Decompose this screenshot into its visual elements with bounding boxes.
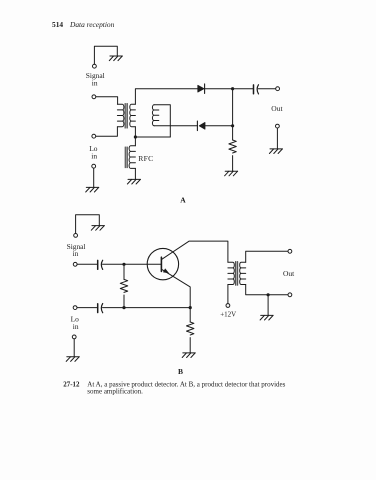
transistor Q1 body [147,248,178,279]
wire: lower stub to ground [93,168,95,187]
wire: secondary bottom to junction [134,127,136,137]
label: Signal in (A) [86,71,105,87]
resistor R3 (emitter) [187,308,194,353]
transformer T1 core [125,103,127,128]
diode D1 (series detector diode) [198,84,205,94]
node: Lo / R2 junction [122,306,125,309]
ground: RFC ground [127,179,140,184]
node: B lower stub terminal [72,335,76,339]
capacitor C1 (output coupling) [254,85,259,94]
svg-text:Out: Out [283,269,295,278]
node: B chassis stub terminal [74,234,78,238]
ground: B input ground [66,357,79,362]
node: A Out upper terminal [276,87,280,91]
inductor L1 (tank coil) [152,105,158,126]
node: emitter / R3 junction [189,306,192,309]
wire: rail between junctions [232,89,234,140]
ground: R1 ground [225,171,238,176]
label: Signal in (B) [67,242,86,258]
resistor R2 (bias) [120,264,127,307]
node: A chassis stub terminal (top-left) [93,64,97,68]
transistor Q1 base bar [160,257,162,271]
diode D2 (shunt detector diode) [197,121,205,131]
transistor Q1 collector lead [162,241,228,262]
wire: C2 to base [103,263,162,265]
wire: T2 primary bottom to +12V terminal [227,285,229,304]
node: base / R2 junction [122,263,125,266]
svg-text:A: A [180,195,186,204]
figure caption [63,380,285,395]
wire: junction to ground [267,295,269,316]
page header [52,20,115,29]
wire: T2 secondary bottom to Out lower [246,285,288,295]
ground: A input ground [86,187,99,192]
node: A lower stub terminal [92,164,96,168]
wire: RFC to ground [134,168,136,179]
wire: L1 top to right side down to bottom rail [154,105,170,137]
svg-text:514: 514 [52,20,63,29]
svg-text:in: in [73,249,79,258]
transistor Q1 emitter arrow [163,268,169,273]
node: A signal input terminal [92,95,96,99]
wire: B lower stub to ground [73,339,75,357]
transformer T2 core [236,262,238,286]
ground: A output ground [269,149,282,154]
transistor Q1 emitter lead [162,269,191,307]
node: rail / D2 junction [231,124,234,127]
wire: junction down to RFC [134,137,136,146]
wire: A stub terminal up and over to ground [94,46,117,64]
svg-text:27-12: 27-12 [63,380,80,388]
wire: R1 to ground [232,156,234,172]
wire: Out lower terminal to ground [276,128,278,149]
svg-text:some amplification.: some amplification. [87,387,143,395]
label: Lo in (B) [71,315,80,331]
node: T1 secondary bottom junction [134,135,137,138]
svg-text:RFC: RFC [138,154,153,163]
ground: A stub ground [109,56,122,61]
node: secondary bottom / ground junction [267,293,270,296]
svg-text:in: in [92,78,98,87]
wire: signal terminal to T1 primary top [96,97,118,105]
wire: T1 primary bottom to Lo in terminal [96,127,118,137]
wire: C1 to Out terminal [258,88,275,90]
wire: L1 bottom to D2 anode [154,125,197,127]
svg-text:Out: Out [271,104,283,113]
wire: T1 secondary top to top rail [135,89,197,105]
wire: D1 cathode to output rail junction [205,88,254,90]
node: A Lo in terminal [92,134,96,138]
transformer T2 secondary winding [240,262,246,284]
node: B Out upper terminal [288,249,292,253]
node: junction top rail / load resistor [231,87,234,90]
wire: Lo terminal to C3 [77,307,98,309]
wire: D2 to rail junction [205,125,233,127]
node: B signal input terminal [73,262,77,266]
transformer T1 secondary winding [130,104,136,126]
capacitor C3 (Lo coupling) [98,304,103,313]
ground: B output ground [260,315,273,320]
wire: C3 to emitter junction [103,307,191,309]
label: Lo in (A) [89,144,98,160]
wire: B stub terminal to ground [76,215,100,234]
node: +12V terminal [226,304,230,308]
inductor RFC [129,146,135,169]
wire: T2 secondary top to Out [246,251,288,262]
node: A Out lower terminal [276,124,280,128]
svg-text:B: B [178,367,183,376]
capacitor C2 (signal coupling) [98,260,103,269]
wire: signal terminal to C2 [77,263,98,265]
RFC core [125,147,127,168]
resistor R1 (detector load) [229,140,236,153]
svg-text:in: in [73,322,79,331]
ground: R3 ground [182,353,195,358]
svg-text:Data reception: Data reception [69,20,115,29]
wire: junction right to tank inductor branch [135,136,170,138]
ground: B stub ground [91,226,104,231]
svg-text:in: in [91,152,97,161]
svg-text:+12V: +12V [220,310,236,318]
node: B Lo in terminal [73,306,77,310]
transformer T2 primary winding [228,262,234,284]
transformer T1 primary winding [117,104,124,126]
node: B Out lower terminal [288,293,292,297]
